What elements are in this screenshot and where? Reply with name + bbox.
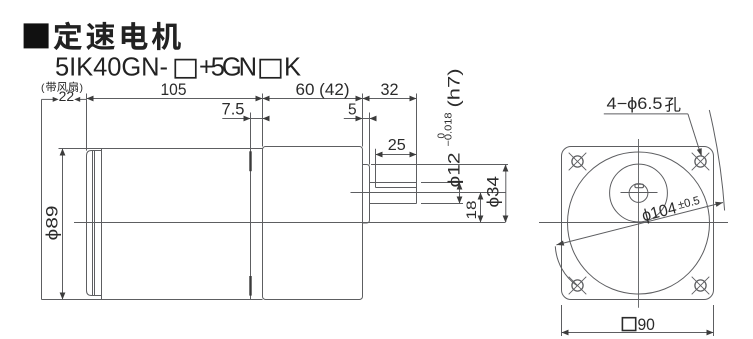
front shaft circle φ12	[621, 184, 658, 203]
front vertical centerline	[638, 139, 640, 308]
svg-text:K: K	[284, 53, 301, 81]
svg-text:ϕ12: ϕ12	[445, 153, 464, 188]
dimension 60（42）	[263, 80, 363, 147]
dimension 105	[87, 80, 263, 151]
front flange square	[562, 147, 714, 300]
bolt hole bottom-right φ6.5	[692, 277, 710, 295]
svg-text:(h7): (h7)	[445, 69, 464, 108]
svg-text:): )	[80, 82, 84, 94]
motor fan cover cap	[87, 151, 102, 296]
dimension 18 (offset)	[464, 193, 483, 223]
svg-text:5IK40GN-: 5IK40GN-	[55, 53, 168, 81]
shaft milled flat	[376, 183, 417, 188]
svg-text:18: 18	[464, 201, 479, 220]
front body circle	[568, 152, 710, 294]
bolt hole top-right φ6.5	[692, 153, 710, 171]
dimension 22 (fan length)	[42, 89, 87, 299]
dimension 32 (shaft length)	[363, 80, 417, 183]
model checkbox 2	[260, 60, 281, 78]
bolt circle arc bottom-left	[555, 246, 577, 286]
title bullet square	[24, 23, 49, 48]
note (带风扇) with-fan	[41, 82, 83, 94]
dimension □90	[562, 305, 714, 336]
model text 5IK40GN-	[55, 53, 168, 81]
svg-text:60 (42): 60 (42)	[296, 80, 350, 99]
svg-text:90: 90	[637, 315, 655, 334]
bolt hole bottom-left φ6.5	[569, 277, 587, 295]
svg-text:32: 32	[381, 80, 399, 99]
bolt hole top-left φ6.5	[569, 153, 587, 171]
front horizontal centerline	[539, 222, 728, 224]
bolt circle arc top-right	[709, 110, 724, 211]
dimension φ12 h7 (shaft dia)	[421, 69, 464, 204]
dimension 5 (boss)	[344, 102, 377, 165]
svg-text:+5GN: +5GN	[199, 53, 257, 81]
model text +5GN	[199, 53, 257, 81]
motor body	[42, 149, 263, 300]
gearbox output boss	[363, 165, 370, 224]
svg-text:ϕ89: ϕ89	[43, 206, 62, 241]
svg-text:25: 25	[388, 137, 406, 154]
svg-text:5: 5	[348, 102, 357, 119]
svg-text:−0.018: −0.018	[443, 112, 454, 146]
svg-text:ϕ34: ϕ34	[484, 176, 503, 208]
svg-text:(: (	[41, 82, 45, 94]
dimension 25 (flat length)	[376, 137, 417, 188]
output shaft	[370, 183, 417, 204]
motor centerline	[74, 222, 506, 224]
svg-text:22: 22	[59, 89, 75, 104]
motor front seam line	[250, 149, 252, 300]
svg-text:0: 0	[437, 133, 448, 139]
dimension 7.5	[222, 100, 270, 149]
shaft centerline	[351, 192, 506, 194]
model checkbox 1	[175, 60, 196, 78]
svg-text:4−ϕ6.5: 4−ϕ6.5	[607, 95, 663, 113]
dimension φ104±0.5 bolt circle (diagonal)	[556, 193, 723, 246]
svg-text:105: 105	[161, 80, 187, 99]
title text 定速电机	[54, 22, 181, 51]
svg-text:7.5: 7.5	[222, 100, 245, 119]
dimension φ34 (boss dia)	[371, 164, 508, 222]
front boss circle φ34	[610, 164, 668, 222]
front shaft flat notch	[635, 184, 644, 188]
gearbox 5GN	[263, 147, 363, 300]
label 4-φ6.5孔 with leader	[604, 95, 702, 157]
dimension φ89 (body dia)	[43, 149, 66, 300]
model text K	[284, 53, 301, 81]
